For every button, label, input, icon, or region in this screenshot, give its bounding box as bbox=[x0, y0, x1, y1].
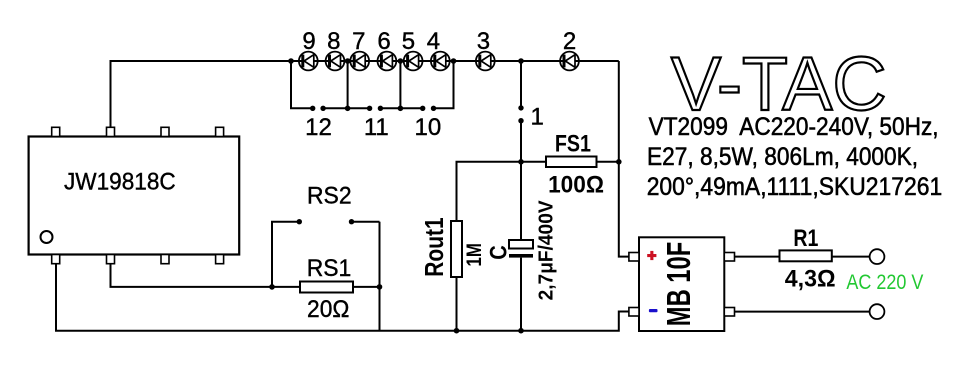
LED D4 bbox=[431, 52, 450, 71]
svg-text:6: 6 bbox=[377, 28, 390, 55]
svg-text:RS2: RS2 bbox=[307, 183, 352, 210]
wire bypass 10 left leg bbox=[400, 107, 422, 109]
label LED 9 bbox=[302, 28, 315, 55]
svg-text:Rout1: Rout1 bbox=[419, 217, 449, 276]
label FS1 bbox=[555, 131, 591, 158]
LED D5 bbox=[404, 52, 423, 71]
LED D8 bbox=[326, 52, 345, 71]
wire FS1 left lead bbox=[521, 161, 546, 163]
LED D9 bbox=[299, 52, 318, 71]
fuse resistor FS1 body bbox=[546, 157, 597, 168]
wire RS2 jumper left leg bbox=[272, 222, 299, 287]
IC U1 bottom pin c bbox=[161, 255, 169, 264]
IC U1 bottom pin b bbox=[107, 255, 115, 264]
LED D3 bbox=[476, 52, 495, 71]
wire bypass 12 right leg bbox=[323, 61, 348, 108]
wire Rout1 top lead to FS1 node bbox=[457, 162, 522, 221]
label R1 bbox=[793, 225, 818, 252]
jumper 12 open contacts bbox=[310, 106, 326, 111]
IC U1 body bbox=[29, 137, 240, 255]
logo V-TAC bbox=[671, 42, 887, 127]
svg-text:20Ω: 20Ω bbox=[307, 296, 349, 323]
svg-text:12: 12 bbox=[305, 114, 332, 141]
jumper RS2 open contacts bbox=[297, 219, 355, 224]
junction dot FS1 right node bbox=[616, 159, 622, 165]
label spec line 2 bbox=[647, 143, 918, 171]
jumper 10 open contacts bbox=[420, 106, 436, 111]
label LED 4 bbox=[427, 28, 440, 55]
svg-text:100Ω: 100Ω bbox=[548, 172, 604, 199]
IC U1 top pin b bbox=[107, 127, 115, 136]
node dot after LED 4 bbox=[451, 58, 457, 64]
bridge pin AC2 (right bottom) bbox=[724, 308, 734, 317]
junction dot bypass at 11/10 bbox=[398, 106, 404, 112]
wire capacitor C to bus bbox=[520, 258, 522, 331]
svg-text:4,3Ω: 4,3Ω bbox=[785, 266, 836, 293]
svg-text:R1: R1 bbox=[793, 225, 818, 252]
jumper 11 open contacts bbox=[367, 106, 383, 111]
wire LED anode rail (top row) bbox=[291, 60, 619, 62]
IC U1 top pin a bbox=[52, 127, 60, 136]
junction dot C at bus bbox=[518, 328, 524, 334]
svg-text:MB 10F: MB 10F bbox=[660, 242, 697, 326]
label Rout1 bbox=[419, 217, 449, 276]
svg-text:2,7μF/400V: 2,7μF/400V bbox=[535, 200, 557, 301]
wire R1 right lead to terminal bbox=[832, 256, 870, 258]
label FS1 value 100&#937; bbox=[548, 172, 604, 199]
svg-text:VT2099 AC220-240V, 50Hz,: VT2099 AC220-240V, 50Hz, bbox=[649, 113, 939, 141]
junction dot RS1 left node bbox=[269, 284, 275, 290]
label LED 5 bbox=[402, 28, 415, 55]
IC U1 bottom pin a bbox=[52, 255, 60, 264]
svg-text:7: 7 bbox=[352, 28, 365, 55]
label LED 8 bbox=[327, 28, 340, 55]
wire node 1 down to FS1 node bbox=[520, 121, 522, 162]
IC U1 top pin c bbox=[161, 127, 169, 136]
svg-text:FS1: FS1 bbox=[555, 131, 591, 158]
wire RS1 right lead bbox=[353, 286, 380, 288]
label bridge plus sign bbox=[647, 251, 656, 260]
label R1 value 4,3&#937; bbox=[785, 266, 836, 293]
node 1 open contacts bbox=[518, 105, 523, 123]
svg-text:C: C bbox=[486, 245, 513, 260]
wire U1 bottom pin 2 to RS1 left bbox=[111, 264, 301, 287]
wire bottom bus from U1 pin 1 to bridge minus bbox=[56, 264, 629, 331]
junction dot Rout1 at bus bbox=[454, 328, 460, 334]
IC U1 bottom pin d bbox=[216, 255, 224, 264]
svg-text:1: 1 bbox=[531, 104, 544, 131]
wire RS2/RS1 right node down to bus bbox=[379, 222, 381, 331]
resistor R1 body bbox=[780, 250, 832, 261]
svg-text:AC 220 V: AC 220 V bbox=[846, 271, 923, 294]
label bridge minus sign bbox=[649, 309, 658, 312]
wire bridge AC2 to bottom terminal bbox=[735, 311, 870, 313]
node dot between LED 8 and 7 bbox=[345, 58, 351, 64]
label jumper 10 bbox=[415, 114, 442, 141]
wire Rout1 bottom lead to bus bbox=[456, 277, 458, 331]
LED D6 bbox=[378, 52, 397, 71]
terminal AC neutral bbox=[870, 304, 885, 319]
wire bypass 11 right leg bbox=[380, 61, 400, 108]
label C value 2,7uF/400V bbox=[535, 200, 557, 301]
wire bypass 10 right leg bbox=[434, 61, 454, 108]
svg-text:E27, 8,5W, 806Lm, 4000K,: E27, 8,5W, 806Lm, 4000K, bbox=[647, 143, 918, 171]
label LED 2 bbox=[563, 28, 576, 55]
label AC 220 V bbox=[846, 271, 923, 294]
node dot between LED 6 and 5 bbox=[398, 58, 404, 64]
bridge pin - (left bottom) bbox=[629, 308, 639, 317]
svg-text:5: 5 bbox=[402, 28, 415, 55]
label RS1 value 20&#937; bbox=[307, 296, 349, 323]
LED D7 bbox=[350, 52, 369, 71]
capacitor C bottom plate bbox=[509, 254, 533, 258]
IC U1 top pin d bbox=[216, 127, 224, 136]
svg-text:4: 4 bbox=[427, 28, 440, 55]
resistor RS1 body bbox=[300, 282, 353, 293]
junction dot bypass at 12/11 bbox=[345, 106, 351, 112]
svg-text:RS1: RS1 bbox=[307, 255, 352, 282]
svg-text:3: 3 bbox=[477, 28, 490, 55]
node dot LED row left bbox=[288, 58, 294, 64]
label RS1 bbox=[307, 255, 352, 282]
svg-text:10: 10 bbox=[415, 114, 442, 141]
resistor Rout1 body bbox=[451, 221, 462, 277]
svg-text:11: 11 bbox=[364, 114, 389, 141]
label spec line 3 bbox=[647, 173, 943, 201]
node dot before LED 2 (node 1 tap) bbox=[518, 58, 524, 64]
wire FS1 right lead bbox=[597, 161, 619, 163]
terminal AC live bbox=[870, 249, 885, 264]
bridge pin + (left top) bbox=[629, 253, 639, 262]
svg-text:1M: 1M bbox=[463, 243, 486, 266]
bridge pin AC1 (right top) bbox=[724, 253, 734, 262]
junction dot RS1 right node bbox=[377, 284, 383, 290]
wire LED row down to node 1 bbox=[520, 61, 522, 106]
wire bypass 12 left leg bbox=[291, 61, 313, 108]
LED D2 bbox=[560, 52, 579, 71]
svg-text:8: 8 bbox=[327, 28, 340, 55]
wire U1 top pin 2 up and right to LED string start bbox=[111, 61, 292, 128]
label LED 3 bbox=[477, 28, 490, 55]
capacitor C top plate bbox=[509, 240, 533, 249]
label spec line 1 bbox=[649, 113, 939, 141]
label U1 JW19818C bbox=[64, 169, 176, 196]
label RS2 bbox=[307, 183, 352, 210]
label node 1 bbox=[531, 104, 544, 131]
label jumper 12 bbox=[305, 114, 332, 141]
svg-text:JW19818C: JW19818C bbox=[64, 169, 176, 196]
wire R1 left lead bbox=[735, 256, 780, 258]
label bridge MB 10F bbox=[660, 242, 697, 326]
label LED 7 bbox=[352, 28, 365, 55]
wire bypass 11 left leg bbox=[348, 107, 370, 109]
bridge rectifier MB10F body bbox=[639, 237, 724, 331]
svg-text:2: 2 bbox=[563, 28, 576, 55]
wire FS1 node down to capacitor C bbox=[520, 162, 522, 240]
label jumper 11 bbox=[364, 114, 389, 141]
svg-text:200°,49mA,1111,SKU217261: 200°,49mA,1111,SKU217261 bbox=[647, 173, 943, 201]
label LED 6 bbox=[377, 28, 390, 55]
wire RS2 jumper right leg bbox=[352, 221, 380, 223]
svg-text:9: 9 bbox=[302, 28, 315, 55]
junction dot FS1 left node bbox=[518, 159, 524, 165]
wire LED row output down to bridge + pin bbox=[619, 61, 629, 257]
IC U1 pin1 indicator bbox=[41, 231, 53, 243]
label C bbox=[486, 245, 513, 260]
label Rout1 value 1M bbox=[463, 243, 486, 266]
